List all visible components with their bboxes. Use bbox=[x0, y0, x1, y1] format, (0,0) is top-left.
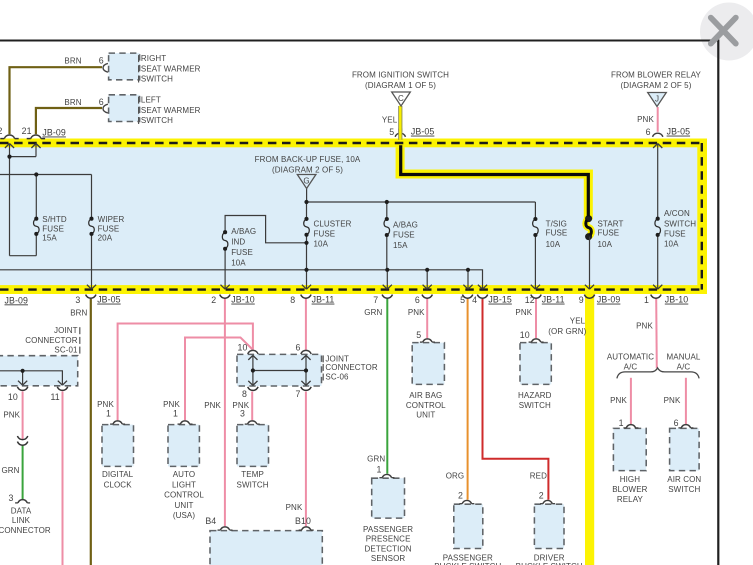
svg-text:S/HTD: S/HTD bbox=[42, 215, 67, 224]
svg-text:CONNECTOR: CONNECTOR bbox=[0, 526, 51, 535]
svg-text:FUSE: FUSE bbox=[393, 231, 415, 240]
svg-text:10A: 10A bbox=[314, 240, 329, 249]
svg-text:(USA): (USA) bbox=[173, 511, 196, 520]
svg-text:A/CON: A/CON bbox=[664, 209, 690, 218]
svg-text:12: 12 bbox=[525, 295, 535, 305]
svg-text:A/C: A/C bbox=[624, 362, 638, 371]
svg-text:HIGH: HIGH bbox=[620, 475, 641, 484]
svg-text:BLOWER: BLOWER bbox=[612, 485, 647, 494]
svg-text:JB-05: JB-05 bbox=[97, 295, 120, 305]
svg-text:C: C bbox=[398, 94, 404, 103]
svg-text:TEMP: TEMP bbox=[241, 470, 264, 479]
svg-text:UNIT: UNIT bbox=[174, 501, 193, 510]
svg-text:10: 10 bbox=[238, 343, 248, 353]
svg-text:11: 11 bbox=[50, 392, 59, 402]
svg-text:PRESENCE: PRESENCE bbox=[366, 535, 411, 544]
svg-text:4: 4 bbox=[472, 295, 477, 305]
svg-text:SWITCH: SWITCH bbox=[664, 219, 696, 228]
svg-text:8: 8 bbox=[242, 389, 247, 399]
svg-text:SEAT WARMER: SEAT WARMER bbox=[141, 106, 201, 115]
svg-text:CONTROL: CONTROL bbox=[164, 491, 204, 500]
svg-text:G: G bbox=[303, 176, 309, 185]
svg-text:6: 6 bbox=[99, 56, 104, 66]
svg-text:JB-05: JB-05 bbox=[667, 127, 690, 137]
svg-text:6: 6 bbox=[99, 97, 104, 107]
svg-text:1: 1 bbox=[619, 418, 624, 428]
svg-text:FUSE: FUSE bbox=[546, 228, 568, 237]
svg-text:6: 6 bbox=[646, 127, 651, 137]
svg-text:GRN: GRN bbox=[367, 454, 385, 463]
svg-text:PNK: PNK bbox=[637, 115, 654, 124]
svg-text:LEFT: LEFT bbox=[141, 96, 161, 105]
svg-text:5: 5 bbox=[416, 330, 421, 340]
svg-text:UNIT: UNIT bbox=[416, 411, 435, 420]
svg-text:DETECTION: DETECTION bbox=[365, 544, 412, 553]
svg-text:AIR CON: AIR CON bbox=[667, 475, 701, 484]
svg-text:2: 2 bbox=[539, 490, 544, 500]
svg-text:DATA: DATA bbox=[11, 507, 32, 516]
svg-text:B4: B4 bbox=[205, 516, 216, 526]
svg-text:SWITCH: SWITCH bbox=[237, 480, 269, 489]
svg-text:8: 8 bbox=[290, 295, 295, 305]
svg-text:A/BAG: A/BAG bbox=[393, 221, 418, 230]
svg-text:GRN: GRN bbox=[1, 466, 19, 475]
svg-text:SEAT WARMER: SEAT WARMER bbox=[141, 64, 201, 73]
svg-text:YEL: YEL bbox=[570, 317, 586, 326]
svg-text:RED: RED bbox=[530, 471, 547, 480]
svg-text:JB-10: JB-10 bbox=[665, 295, 688, 305]
svg-text:10: 10 bbox=[520, 330, 530, 340]
svg-text:CLUSTER: CLUSTER bbox=[314, 219, 352, 228]
svg-text:FROM BACK-UP FUSE, 10A: FROM BACK-UP FUSE, 10A bbox=[255, 155, 361, 164]
svg-text:T/SIG: T/SIG bbox=[546, 220, 567, 229]
svg-text:SC-01: SC-01 bbox=[54, 346, 78, 355]
svg-text:FUSE: FUSE bbox=[664, 230, 686, 239]
svg-text:FUSE: FUSE bbox=[98, 224, 120, 233]
svg-text:6: 6 bbox=[296, 343, 301, 353]
svg-text:MANUAL: MANUAL bbox=[667, 352, 701, 361]
svg-text:PNK: PNK bbox=[636, 322, 653, 331]
svg-text:3: 3 bbox=[240, 408, 245, 418]
svg-text:2: 2 bbox=[0, 126, 3, 136]
svg-text:JB-09: JB-09 bbox=[42, 128, 65, 138]
svg-text:FUSE: FUSE bbox=[314, 230, 336, 239]
svg-text:PNK: PNK bbox=[664, 396, 681, 405]
svg-text:9: 9 bbox=[579, 295, 584, 305]
svg-text:JB-15: JB-15 bbox=[488, 295, 511, 305]
svg-text:JB-05: JB-05 bbox=[411, 127, 434, 137]
svg-text:DIGITAL: DIGITAL bbox=[102, 470, 134, 479]
svg-text:FROM IGNITION SWITCH: FROM IGNITION SWITCH bbox=[352, 70, 449, 79]
svg-text:BRN: BRN bbox=[70, 309, 87, 318]
svg-text:CLOCK: CLOCK bbox=[104, 480, 133, 489]
svg-text:LIGHT: LIGHT bbox=[172, 480, 196, 489]
svg-text:3: 3 bbox=[9, 493, 14, 503]
svg-text:15A: 15A bbox=[393, 241, 408, 250]
svg-text:A/C: A/C bbox=[677, 362, 691, 371]
svg-text:RELAY: RELAY bbox=[617, 495, 644, 504]
svg-text:FUSE: FUSE bbox=[598, 228, 620, 237]
svg-text:GRN: GRN bbox=[364, 308, 382, 317]
svg-text:7: 7 bbox=[373, 295, 378, 305]
svg-text:6: 6 bbox=[415, 295, 420, 305]
svg-text:5: 5 bbox=[460, 295, 465, 305]
svg-text:JB-11: JB-11 bbox=[312, 295, 335, 305]
svg-text:PNK: PNK bbox=[204, 401, 221, 410]
svg-text:10A: 10A bbox=[664, 240, 679, 249]
svg-text:J: J bbox=[655, 94, 659, 103]
svg-text:(OR GRN): (OR GRN) bbox=[548, 327, 586, 336]
svg-text:6: 6 bbox=[674, 418, 679, 428]
svg-text:(DIAGRAM 2 OF 5): (DIAGRAM 2 OF 5) bbox=[621, 81, 692, 90]
svg-text:BRN: BRN bbox=[64, 98, 81, 107]
svg-text:1: 1 bbox=[644, 295, 649, 305]
svg-text:2: 2 bbox=[458, 490, 463, 500]
svg-text:PASSENGER: PASSENGER bbox=[363, 525, 413, 534]
svg-text:AUTOMATIC: AUTOMATIC bbox=[607, 352, 654, 361]
svg-text:ORG: ORG bbox=[446, 471, 465, 480]
svg-text:SENSOR: SENSOR bbox=[371, 554, 406, 563]
svg-text:PNK: PNK bbox=[610, 396, 627, 405]
svg-text:SWITCH: SWITCH bbox=[141, 75, 173, 84]
svg-text:JB-11: JB-11 bbox=[542, 295, 565, 305]
svg-text:PNK: PNK bbox=[408, 308, 425, 317]
svg-text:5: 5 bbox=[389, 127, 394, 137]
svg-text:BRN: BRN bbox=[64, 56, 81, 65]
svg-text:B10: B10 bbox=[295, 516, 311, 526]
svg-text:10A: 10A bbox=[546, 240, 561, 249]
svg-text:JB-10: JB-10 bbox=[231, 295, 254, 305]
svg-text:SWITCH: SWITCH bbox=[141, 116, 173, 125]
svg-text:1: 1 bbox=[173, 408, 178, 418]
svg-text:A/BAG: A/BAG bbox=[231, 227, 256, 236]
svg-text:HAZARD: HAZARD bbox=[518, 391, 552, 400]
svg-text:SWITCH: SWITCH bbox=[668, 485, 700, 494]
svg-text:PNK: PNK bbox=[3, 411, 20, 420]
svg-text:10: 10 bbox=[8, 392, 18, 402]
svg-text:1: 1 bbox=[377, 464, 382, 474]
svg-text:CONNECTOR: CONNECTOR bbox=[325, 363, 377, 372]
svg-text:YEL: YEL bbox=[382, 115, 398, 124]
svg-text:FUSE: FUSE bbox=[42, 224, 64, 233]
svg-text:(DIAGRAM 1 OF 5): (DIAGRAM 1 OF 5) bbox=[365, 81, 436, 90]
svg-text:JOINT: JOINT bbox=[54, 326, 78, 335]
svg-text:SWITCH: SWITCH bbox=[519, 401, 551, 410]
svg-text:FUSE: FUSE bbox=[231, 248, 253, 257]
svg-text:PNK: PNK bbox=[286, 503, 303, 512]
svg-text:IND: IND bbox=[231, 238, 245, 247]
svg-text:LINK: LINK bbox=[12, 516, 31, 525]
svg-text:2: 2 bbox=[211, 295, 216, 305]
svg-text:20A: 20A bbox=[98, 233, 113, 242]
svg-text:(DIAGRAM 2 OF 5): (DIAGRAM 2 OF 5) bbox=[272, 166, 343, 175]
svg-text:15A: 15A bbox=[42, 233, 57, 242]
svg-text:SC-06: SC-06 bbox=[325, 373, 349, 382]
svg-text:AUTO: AUTO bbox=[173, 470, 195, 479]
svg-text:21: 21 bbox=[22, 126, 32, 136]
svg-text:3: 3 bbox=[75, 295, 80, 305]
svg-text:RIGHT: RIGHT bbox=[141, 54, 166, 63]
svg-text:FROM BLOWER RELAY: FROM BLOWER RELAY bbox=[611, 70, 702, 79]
svg-text:START: START bbox=[598, 220, 624, 229]
svg-text:10A: 10A bbox=[598, 240, 613, 249]
svg-text:7: 7 bbox=[296, 389, 301, 399]
svg-text:10A: 10A bbox=[231, 258, 246, 267]
svg-text:1: 1 bbox=[106, 408, 111, 418]
svg-text:AIR BAG: AIR BAG bbox=[409, 391, 442, 400]
svg-text:WIPER: WIPER bbox=[98, 215, 125, 224]
svg-text:JB-09: JB-09 bbox=[597, 295, 620, 305]
svg-text:JB-09: JB-09 bbox=[5, 295, 28, 305]
svg-text:CONTROL: CONTROL bbox=[406, 401, 446, 410]
svg-text:PNK: PNK bbox=[515, 308, 532, 317]
svg-text:CONNECTOR: CONNECTOR bbox=[25, 336, 77, 345]
